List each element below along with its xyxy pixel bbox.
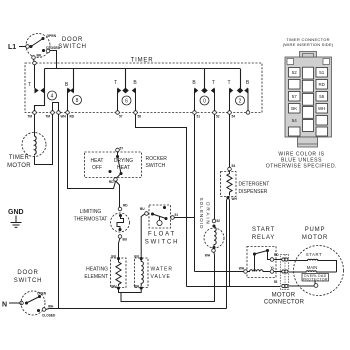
svg-text:T: T xyxy=(28,82,31,88)
wire 51 from timer down xyxy=(194,114,196,271)
svg-text:LIMITING: LIMITING xyxy=(80,209,102,215)
svg-text:OFF: OFF xyxy=(92,165,102,171)
svg-text:55: 55 xyxy=(274,280,278,284)
svg-text:RD: RD xyxy=(318,82,325,87)
svg-text:BK: BK xyxy=(37,54,42,58)
wire dispenser to N bus xyxy=(227,198,229,309)
svg-text:WH: WH xyxy=(61,115,67,119)
svg-text:51: 51 xyxy=(319,70,325,75)
svg-text:RD: RD xyxy=(123,203,128,207)
svg-text:START: START xyxy=(306,252,322,257)
wire 52 from timer to drain solenoid xyxy=(214,114,216,219)
timer bus xyxy=(45,68,241,70)
start relay xyxy=(239,247,280,285)
svg-text:HEATING: HEATING xyxy=(86,267,108,273)
svg-text:WH: WH xyxy=(111,284,117,288)
wire 58 from timer to motor connector 55 xyxy=(136,114,187,286)
svg-text:ELEMENT: ELEMENT xyxy=(84,274,108,280)
svg-text:THERMOSTAT: THERMOSTAT xyxy=(74,217,108,223)
svg-text:PUMP: PUMP xyxy=(305,227,326,233)
svg-text:T: T xyxy=(227,80,230,86)
wire WH from timer down to N bus xyxy=(58,114,60,308)
svg-text:SWITCH: SWITCH xyxy=(145,240,179,246)
svg-text:WATER: WATER xyxy=(151,267,174,273)
svg-text:HEAT: HEAT xyxy=(117,165,130,171)
svg-text:GND: GND xyxy=(8,209,24,216)
svg-text:DETERGENT: DETERGENT xyxy=(239,182,270,188)
svg-text:57: 57 xyxy=(119,115,123,119)
svg-text:WH: WH xyxy=(205,254,211,258)
svg-text:RD: RD xyxy=(70,115,75,119)
wire RD from timer to rocker switch exit xyxy=(68,114,116,188)
svg-text:MAIN: MAIN xyxy=(307,265,317,270)
svg-text:MOTOR: MOTOR xyxy=(272,293,296,299)
svg-text:START: START xyxy=(252,227,275,233)
svg-text:TIMER: TIMER xyxy=(9,155,30,161)
svg-text:WH: WH xyxy=(48,305,54,309)
wire 51 branch to start relay coil line xyxy=(195,271,246,273)
timer switch 2 xyxy=(227,69,249,111)
svg-text:57: 57 xyxy=(120,147,124,151)
svg-text:WH: WH xyxy=(232,197,238,201)
svg-text:DRYING: DRYING xyxy=(114,158,133,164)
svg-text:BU: BU xyxy=(123,238,128,242)
svg-text:OTHERWISE SPECIFIED.: OTHERWISE SPECIFIED. xyxy=(266,164,337,170)
svg-text:52: 52 xyxy=(292,70,298,75)
svg-text:52: 52 xyxy=(216,115,220,119)
wire neutral jumper to solenoid junction xyxy=(121,272,215,302)
svg-text:WH: WH xyxy=(318,106,326,111)
svg-text:57: 57 xyxy=(292,94,298,99)
svg-text:TIMER: TIMER xyxy=(131,58,154,64)
svg-text:PROTECTOR: PROTECTOR xyxy=(303,278,328,282)
svg-text:N: N xyxy=(2,302,7,309)
svg-text:58: 58 xyxy=(138,115,142,119)
timer motor M1 xyxy=(22,114,53,164)
rocker switch (heat off / drying heat) xyxy=(85,147,142,185)
svg-text:CONNECTOR: CONNECTOR xyxy=(264,300,305,306)
door switch DS1 (L1 side) xyxy=(26,34,61,60)
svg-text:0: 0 xyxy=(203,98,206,104)
svg-text:54: 54 xyxy=(232,164,236,168)
timer switch 6 xyxy=(114,69,137,111)
svg-text:SWITCH: SWITCH xyxy=(58,44,86,50)
timer switch 0 xyxy=(192,69,215,111)
pump motor xyxy=(289,246,344,296)
wire 54 from timer to detergent dispenser xyxy=(229,114,231,167)
svg-text:HEAT: HEAT xyxy=(91,158,104,164)
ground GND xyxy=(8,209,24,227)
svg-text:SWITCH: SWITCH xyxy=(14,278,42,284)
svg-text:SWITCH: SWITCH xyxy=(146,163,166,169)
heating element xyxy=(111,255,127,290)
door switch DS2 (N side) xyxy=(2,291,56,318)
svg-text:DOOR: DOOR xyxy=(17,270,38,276)
svg-text:T: T xyxy=(114,80,117,86)
svg-text:TM: TM xyxy=(45,115,50,119)
svg-text:MOTOR: MOTOR xyxy=(302,235,328,241)
wire float exit to 51 xyxy=(174,217,194,219)
svg-text:2: 2 xyxy=(239,98,242,104)
svg-text:OPEN: OPEN xyxy=(47,34,57,38)
svg-text:54: 54 xyxy=(232,115,236,119)
wire rocker to limiting thermostat xyxy=(116,181,120,207)
svg-text:8: 8 xyxy=(76,98,79,104)
svg-text:54: 54 xyxy=(292,118,298,123)
wire float entry to water valve xyxy=(141,214,145,257)
timer switch 8 xyxy=(65,69,82,111)
water valve xyxy=(134,255,148,290)
motor connector xyxy=(274,254,289,289)
svg-text:DISPENSER: DISPENSER xyxy=(239,189,268,195)
timer connector cell labels xyxy=(291,70,326,123)
svg-text:WH: WH xyxy=(134,284,140,288)
svg-text:FLOAT: FLOAT xyxy=(148,232,176,238)
svg-text:4: 4 xyxy=(51,93,54,99)
timer connector cells xyxy=(289,67,328,136)
timer terminals on bottom edge xyxy=(27,111,249,119)
svg-text:OPEN: OPEN xyxy=(37,292,47,296)
svg-text:RD: RD xyxy=(274,253,279,257)
detergent dispenser xyxy=(221,167,238,201)
timer box xyxy=(25,63,262,113)
svg-text:VALVE: VALVE xyxy=(151,274,171,280)
svg-text:52: 52 xyxy=(217,219,221,223)
svg-text:CLOSED: CLOSED xyxy=(42,314,56,318)
svg-text:L1: L1 xyxy=(8,44,16,51)
drain solenoid xyxy=(204,219,224,272)
N bus wire xyxy=(46,309,227,310)
wire door switch CLOSED to timer bus xyxy=(50,51,57,69)
svg-text:BK: BK xyxy=(291,106,297,111)
svg-text:RD: RD xyxy=(109,180,114,184)
timer connector (top right) xyxy=(283,37,334,147)
svg-text:51: 51 xyxy=(197,115,201,119)
wire door switch BK to timer xyxy=(34,59,35,63)
limiting thermostat xyxy=(111,203,130,241)
svg-text:TM: TM xyxy=(27,115,32,119)
svg-text:T: T xyxy=(212,80,215,86)
svg-text:ROCKER: ROCKER xyxy=(146,156,168,162)
wire 55 to motor connector xyxy=(187,286,281,288)
svg-text:DOOR: DOOR xyxy=(62,37,83,43)
svg-text:WH: WH xyxy=(239,267,245,271)
svg-text:6: 6 xyxy=(125,98,128,104)
wire L1 to door switch xyxy=(19,46,26,48)
jumper heating element / water valve neutral xyxy=(119,289,142,292)
jumper TM2-WH inside timer xyxy=(53,103,59,111)
svg-text:BU: BU xyxy=(140,207,145,211)
svg-text:(WIRE INSERTION SIDE): (WIRE INSERTION SIDE) xyxy=(283,42,334,47)
timer switch 4 xyxy=(28,61,57,111)
svg-text:YL: YL xyxy=(270,266,274,270)
svg-text:51: 51 xyxy=(175,213,179,217)
float switch xyxy=(140,205,178,228)
svg-text:MOTOR: MOTOR xyxy=(7,163,31,169)
wire thermostat to heating element xyxy=(119,238,121,257)
svg-text:55: 55 xyxy=(319,94,325,99)
wire dispenser to 55 line xyxy=(228,198,230,287)
svg-text:RELAY: RELAY xyxy=(252,235,275,241)
